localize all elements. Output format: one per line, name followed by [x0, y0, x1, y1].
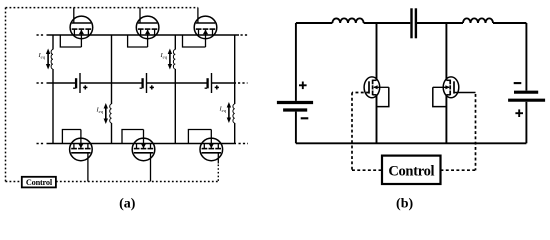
mosfet Q1 (top-left) — [60, 8, 92, 47]
mosfet Q6 (bottom-right) — [188, 130, 222, 161]
gate wire Q5 — [150, 153, 152, 182]
wire column 2 upper — [111, 35, 113, 83]
wire column 4 lower a — [234, 83, 236, 104]
ellipsis top bus left — [37, 34, 46, 36]
mosfet M2 (b) — [433, 23, 459, 143]
svg-text:Ieq: Ieq — [218, 106, 226, 114]
ellipsis battery row left — [37, 82, 46, 84]
inductor L2 — [463, 18, 493, 23]
inductance column 3 — [173, 50, 175, 84]
mosfet Q3 (top-right) — [183, 8, 217, 47]
control box (b) — [382, 156, 441, 184]
wire column 4 upper — [234, 35, 236, 83]
svg-text:Control: Control — [388, 164, 434, 180]
label (b) — [396, 197, 413, 212]
wire bottom bus (a) — [47, 143, 237, 145]
gate wire M1 dashed — [352, 93, 369, 171]
battery B4 (left) — [277, 82, 313, 119]
wire top bus (a) — [47, 34, 240, 36]
control bus dotted top (a) — [6, 7, 199, 9]
svg-text:Ieq: Ieq — [159, 52, 167, 60]
mosfet M1 (b) — [364, 23, 389, 143]
current arrow Ieq 3 — [95, 103, 108, 124]
wire top rail (b) — [296, 22, 527, 24]
wire column 3 upper — [174, 35, 176, 50]
control box (a) — [22, 177, 56, 188]
battery B3 — [205, 73, 219, 93]
wire column 1 lower — [52, 83, 54, 144]
control bus dotted bottom-left (a) — [6, 181, 22, 183]
inductor L1 — [332, 18, 363, 23]
control link left (b) — [352, 169, 382, 171]
ellipsis top bus right — [241, 34, 250, 36]
capacitor C1 — [412, 8, 416, 38]
current arrow Ieq 2 — [159, 49, 172, 70]
inductance column 2 — [110, 104, 112, 144]
wire bottom rail (b) — [296, 142, 527, 144]
current arrow Ieq 4 — [218, 102, 231, 123]
svg-text:Ieq: Ieq — [37, 52, 45, 60]
svg-text:(b): (b) — [396, 197, 413, 212]
wire column 1 upper — [52, 35, 54, 50]
wire right branch lower (b) — [525, 102, 527, 144]
wire left branch (b) — [295, 23, 297, 101]
gate wire Q6 — [217, 153, 219, 182]
wire column 2 lower a — [111, 83, 113, 104]
gate wire M2 dashed — [454, 93, 476, 171]
label (a) — [119, 197, 136, 212]
svg-text:Control: Control — [26, 178, 53, 187]
inductance column 4 — [233, 104, 235, 144]
control bus dotted bottom (a) — [56, 181, 219, 183]
svg-text:(a): (a) — [119, 197, 136, 212]
inductance column 1 — [51, 50, 53, 84]
wire right branch (b) — [525, 23, 527, 91]
battery B1 — [73, 73, 87, 93]
ellipsis battery row right — [238, 82, 248, 84]
ellipsis bottom bus left — [37, 143, 46, 145]
control bus dotted left (a) — [5, 8, 7, 182]
mosfet Q5 (bottom-middle) — [122, 130, 155, 161]
current arrow Ieq 1 — [37, 49, 50, 70]
svg-text:Ieq: Ieq — [95, 107, 103, 115]
control link right (b) — [441, 169, 476, 171]
mosfet Q2 (top-middle) — [128, 8, 159, 47]
battery B2 — [140, 73, 154, 93]
mosfet Q4 (bottom-left) — [62, 130, 92, 161]
gate wire Q4 — [87, 153, 89, 182]
ellipsis bottom bus right — [239, 143, 249, 145]
wire battery row (a) — [47, 82, 237, 84]
battery B5 (right) — [508, 83, 545, 117]
wire left branch lower (b) — [295, 112, 297, 144]
wire column 3 lower — [174, 83, 176, 144]
